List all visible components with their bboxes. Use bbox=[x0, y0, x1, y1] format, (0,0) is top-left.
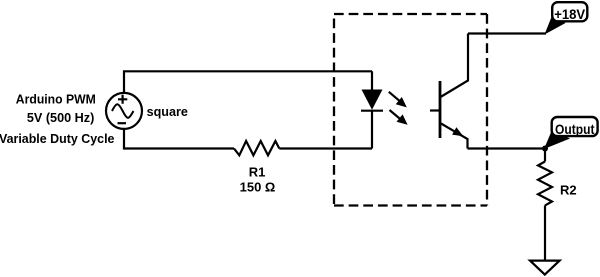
wire collector to +18V flag bbox=[468, 32, 546, 34]
svg-text:Variable Duty Cycle: Variable Duty Cycle bbox=[0, 131, 114, 146]
optocoupler dashed box bbox=[334, 14, 487, 206]
wire R2 to ground bbox=[544, 205, 546, 260]
svg-text:150 Ω: 150 Ω bbox=[240, 179, 276, 194]
wire emitter to output node bbox=[468, 147, 547, 149]
wire bottom from R1 to LED bbox=[279, 147, 372, 149]
light arrow 2 bbox=[390, 110, 408, 125]
svg-text:Arduino PWM: Arduino PWM bbox=[16, 92, 96, 107]
svg-text:square: square bbox=[147, 104, 188, 119]
wire node to R2 bbox=[544, 149, 546, 162]
svg-text:Output: Output bbox=[555, 122, 595, 137]
resistor R1 bbox=[234, 141, 279, 155]
junction node bbox=[542, 146, 548, 152]
light arrow 1 bbox=[389, 92, 407, 108]
svg-text:5V (500 Hz): 5V (500 Hz) bbox=[27, 110, 95, 125]
svg-text:+18V: +18V bbox=[554, 7, 585, 22]
svg-text:R2: R2 bbox=[560, 183, 577, 198]
ground bbox=[530, 261, 560, 275]
resistor R2 bbox=[538, 162, 552, 206]
svg-text:R1: R1 bbox=[249, 165, 266, 180]
voltage source V1 bbox=[106, 93, 142, 129]
wire bottom left from source to R1 bbox=[124, 129, 234, 149]
LED D1 bbox=[361, 71, 383, 148]
wire top from source to LED bbox=[124, 71, 372, 93]
+18V flag bbox=[545, 2, 588, 34]
phototransistor Q1 bbox=[430, 34, 468, 149]
Output flag bbox=[544, 117, 598, 149]
